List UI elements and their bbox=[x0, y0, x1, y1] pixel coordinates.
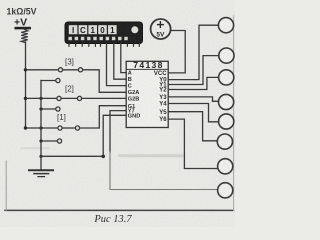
switch S1 bbox=[27, 126, 80, 130]
switch S3 lower throw bbox=[41, 78, 60, 82]
node gnd-row2 bbox=[39, 97, 42, 100]
node bus-row2 bbox=[24, 97, 27, 100]
wire Y5 to O6 bbox=[168, 112, 217, 141]
wire connector pin A bbox=[121, 44, 126, 73]
op IC U1 74138 box bbox=[126, 61, 168, 127]
wire Y2 to O3 bbox=[168, 77, 218, 89]
frame left border bbox=[5, 161, 7, 211]
frame right border bbox=[233, 16, 235, 211]
wire connector pin C bbox=[107, 44, 127, 86]
node gnd-stub1 bbox=[39, 139, 42, 142]
terminal O7 bbox=[218, 159, 233, 174]
switch S2 lower throw bbox=[41, 107, 60, 111]
node bus-row1 bbox=[24, 126, 27, 129]
connector index hole bbox=[131, 26, 138, 33]
+V rail bar bbox=[15, 27, 32, 30]
wire Y4 to O5 bbox=[168, 104, 218, 122]
ground bbox=[29, 170, 53, 176]
wire: bus vertical +V rail bbox=[25, 42, 27, 128]
node gnd-stub2 bbox=[39, 107, 42, 110]
wire +5V to VCC bbox=[168, 31, 185, 73]
terminal O3 bbox=[219, 70, 234, 85]
wire Y0 to O1 bbox=[168, 25, 218, 79]
wire: ground vertical bbox=[40, 81, 42, 170]
wire S2 to G2B bbox=[82, 97, 127, 99]
node GND junction bbox=[101, 155, 105, 159]
IC left pin labels bbox=[128, 71, 140, 120]
frame bottom border bbox=[5, 209, 234, 211]
wire Y6 to O7 bbox=[168, 119, 217, 168]
connector pin ticks bbox=[69, 44, 139, 47]
wire Y1 to O2 bbox=[168, 56, 219, 85]
scan smudge bbox=[118, 154, 184, 157]
wire S1 to G1 bbox=[80, 106, 127, 128]
terminal O6 bbox=[217, 134, 232, 149]
terminal O5 bbox=[219, 114, 234, 129]
resistor (vertical zigzag) bbox=[21, 29, 28, 42]
node gnd-row1 bbox=[39, 126, 42, 129]
connector label windows I C 1 0 1 bbox=[69, 25, 117, 35]
terminal O4 bbox=[219, 94, 234, 109]
terminal O8 bbox=[218, 183, 233, 198]
terminal O2 bbox=[219, 48, 234, 63]
wire Y3 to O4 bbox=[168, 97, 218, 101]
power +5V terminal bbox=[151, 19, 171, 39]
IC title separator bbox=[126, 68, 168, 70]
wire ground rail to GND pin bbox=[41, 155, 103, 157]
wire Y7 around bottom bbox=[110, 111, 126, 152]
switch S1 lower throw bbox=[41, 139, 62, 143]
connector pad row bbox=[69, 37, 128, 40]
node gnd-line bbox=[39, 155, 42, 158]
wire S3 to G2A bbox=[83, 70, 127, 93]
terminal O1 bbox=[218, 18, 233, 33]
connector IC101 body bbox=[65, 22, 143, 44]
switch S3 bbox=[27, 68, 83, 72]
wire connector pin B bbox=[114, 44, 126, 80]
wire GND pin down bbox=[103, 115, 126, 156]
IC right pin labels bbox=[154, 71, 167, 123]
node bus-row3 bbox=[24, 68, 27, 71]
switch S2 bbox=[27, 96, 82, 100]
